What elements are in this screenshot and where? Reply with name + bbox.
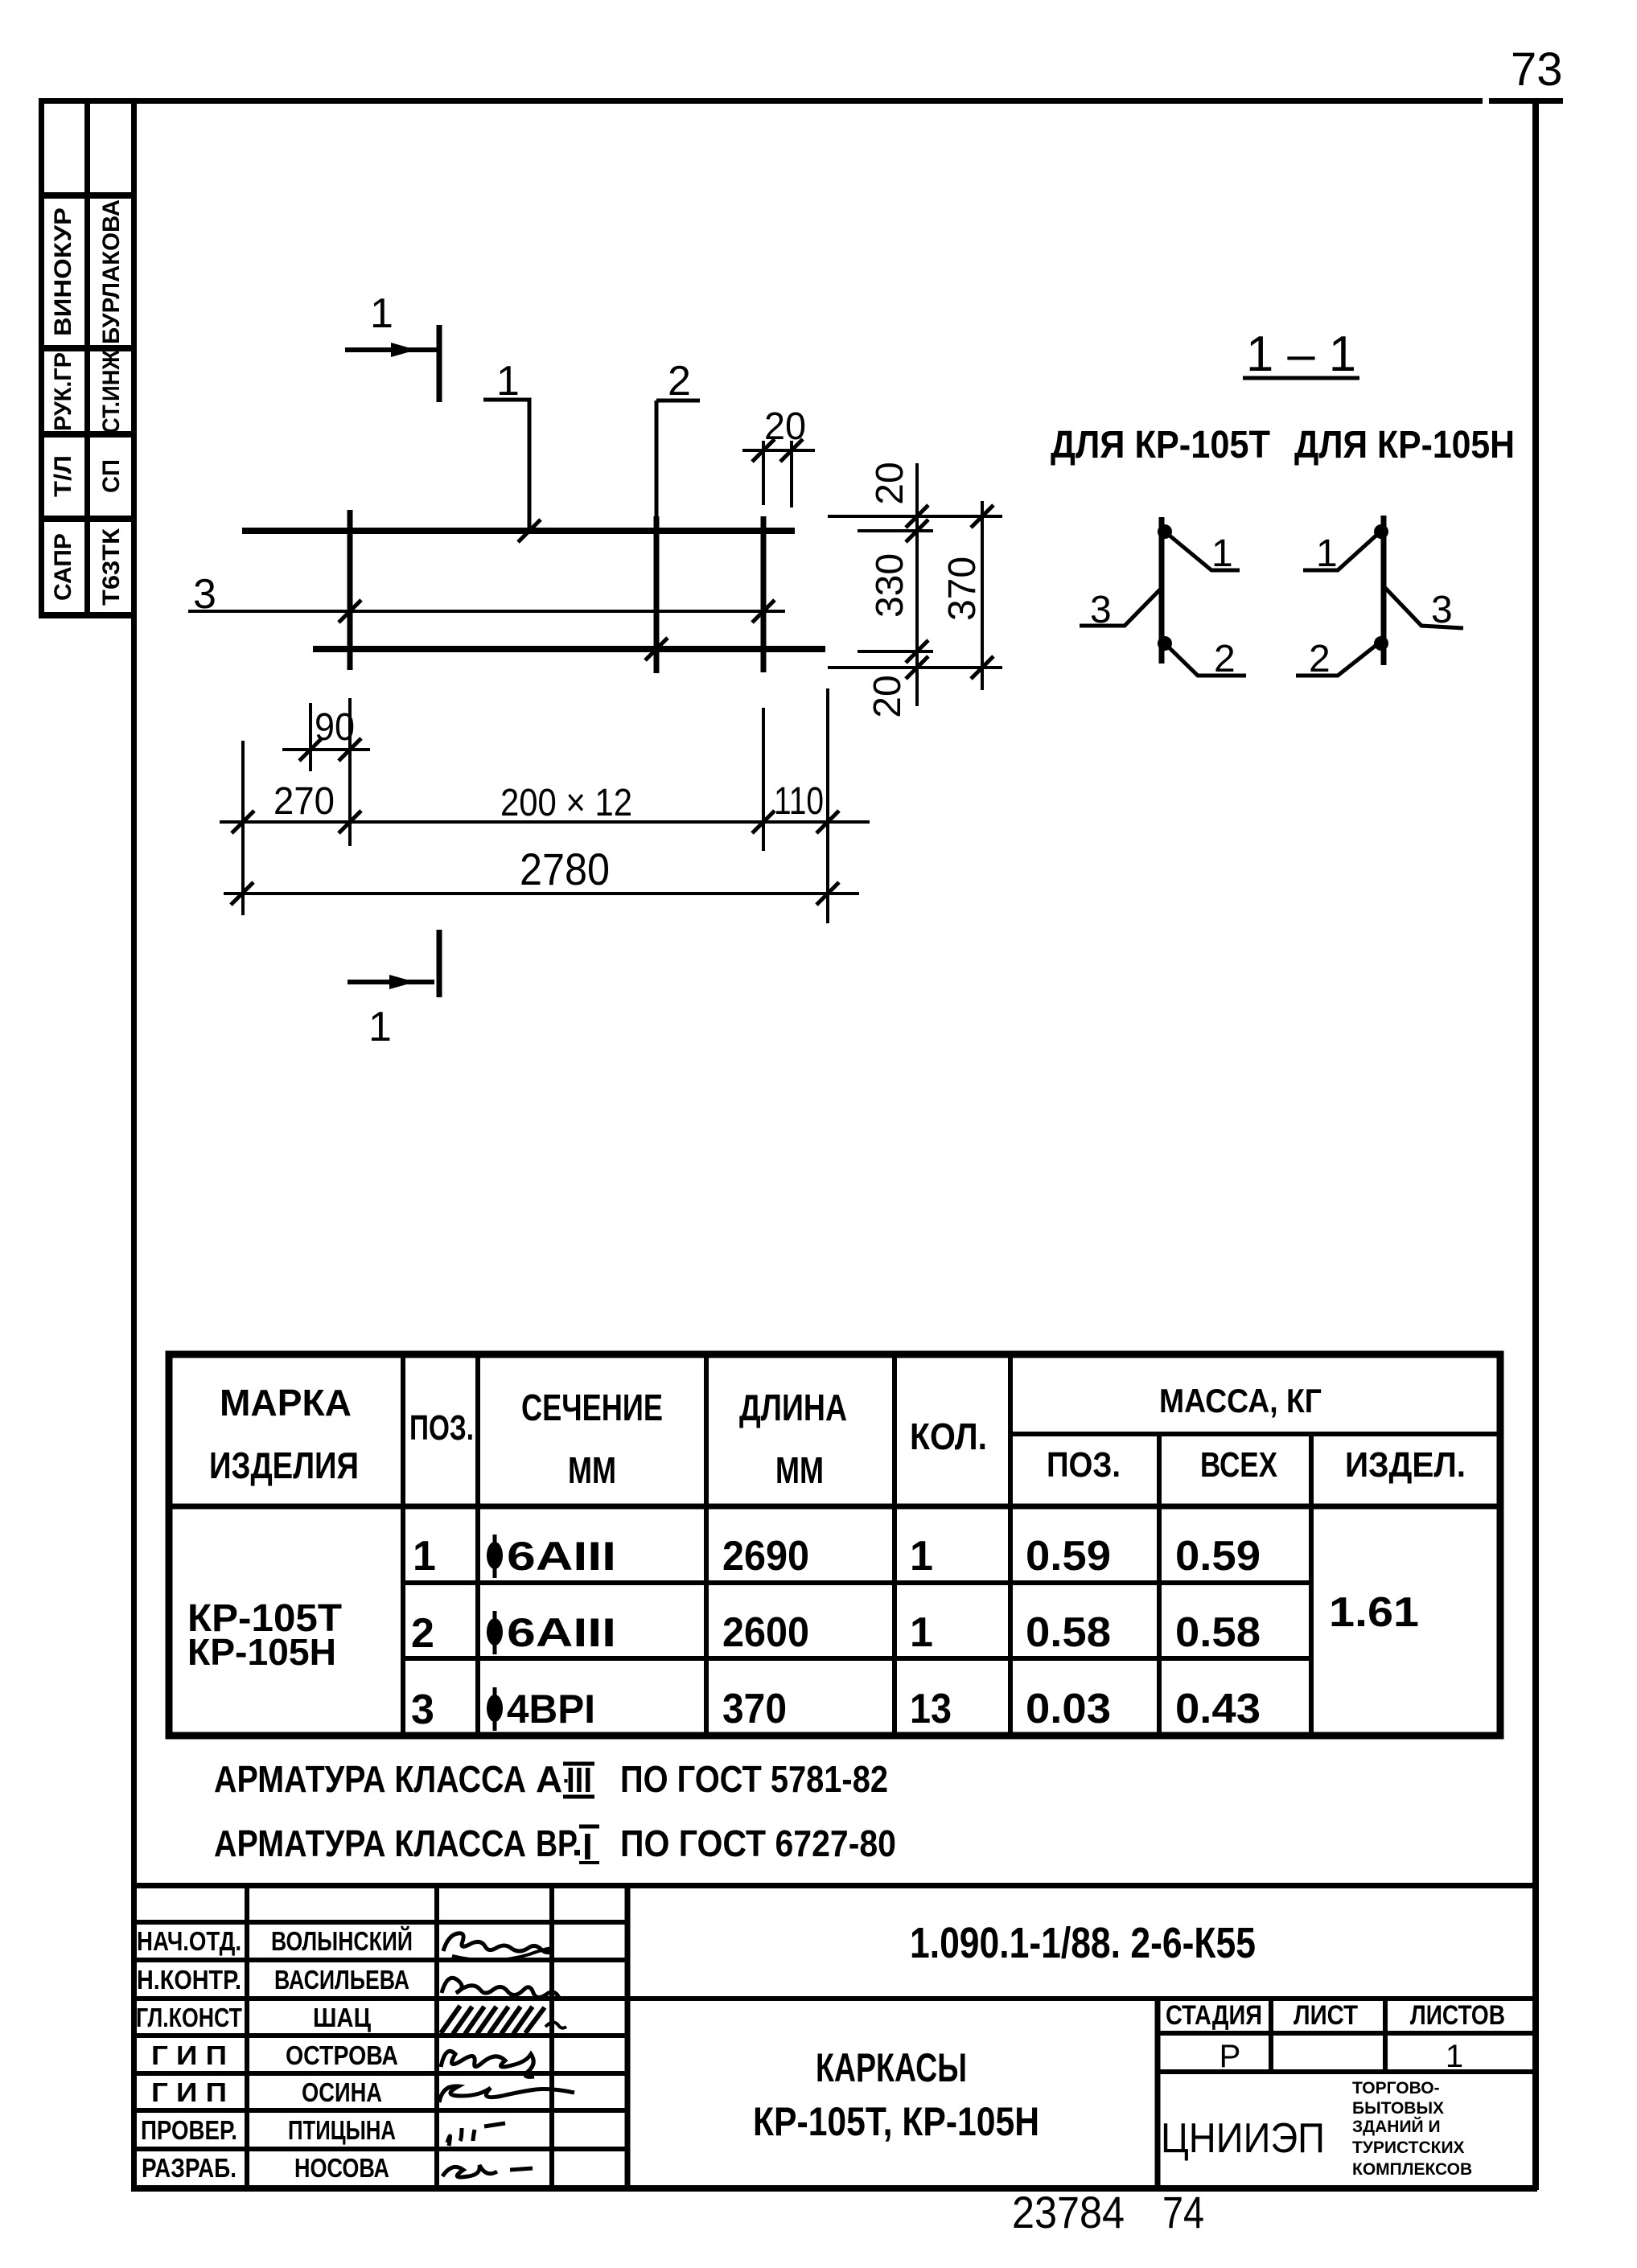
chain1 slash y830 xyxy=(906,656,928,679)
svg-text:1: 1 xyxy=(910,1533,933,1580)
svg-text:0.59: 0.59 xyxy=(1175,1533,1261,1580)
table header bottom line xyxy=(169,1504,1500,1510)
svg-text:РУК.ГР: РУК.ГР xyxy=(50,352,76,431)
frame top border segment 2 xyxy=(1489,98,1563,104)
left dim extension xyxy=(241,741,245,915)
svg-text:2: 2 xyxy=(1309,638,1331,680)
chain1 slash y810 xyxy=(906,640,928,663)
svg-text:ЛИСТОВ: ЛИСТОВ xyxy=(1410,2000,1505,2031)
right symbol leader 3 xyxy=(1385,588,1463,628)
svg-text:ПО ГОСТ 6727-80: ПО ГОСТ 6727-80 xyxy=(620,1822,896,1864)
svg-text:2: 2 xyxy=(411,1610,434,1657)
dim 90: ext line xyxy=(309,703,312,771)
svg-text:ПРОВЕР.: ПРОВЕР. xyxy=(141,2115,237,2145)
signature 4 xyxy=(441,2051,534,2077)
svg-text:ПОЗ.: ПОЗ. xyxy=(409,1408,474,1448)
svg-text:ПТИЦЫНА: ПТИЦЫНА xyxy=(288,2115,396,2145)
frame top border segment 1 xyxy=(39,98,1483,104)
left symbol: dot 1 xyxy=(1158,524,1172,539)
svg-text:3: 3 xyxy=(193,571,216,618)
section title underline xyxy=(1243,376,1359,380)
right symbol: wire bar xyxy=(1381,516,1387,665)
tb row 2624 xyxy=(131,2108,627,2113)
svg-text:ВСЕХ: ВСЕХ xyxy=(1200,1445,1277,1485)
right symbol: dot 1 xyxy=(1374,524,1388,539)
tb v-line 1439 xyxy=(1155,1999,1161,2188)
svg-text:ОСИНА: ОСИНА xyxy=(302,2077,382,2107)
table v-line 1256 xyxy=(1008,1354,1013,1736)
bar pos 1 (top chord) xyxy=(242,528,795,534)
svg-text:РАЗРАБ.: РАЗРАБ. xyxy=(142,2153,237,2183)
dim 90: slash a xyxy=(299,738,322,761)
dimA slash 2 xyxy=(339,811,361,833)
svg-text:1: 1 xyxy=(1211,532,1233,575)
table v-line 1630 xyxy=(1309,1434,1314,1736)
left symbol leader 1 xyxy=(1165,532,1240,570)
dim line B xyxy=(224,892,859,895)
svg-text:КАРКАСЫ: КАРКАСЫ xyxy=(816,2045,967,2090)
bar pos 2 (bottom chord) xyxy=(313,646,825,652)
svg-text:ВИНОКУР: ВИНОКУР xyxy=(50,207,76,336)
svg-text:0.59: 0.59 xyxy=(1026,1533,1111,1580)
stamp row line 2 xyxy=(39,345,137,351)
svg-text:Т/Л: Т/Л xyxy=(50,455,76,497)
table masса sub header line xyxy=(1010,1432,1500,1436)
dim 20 top: slash b xyxy=(780,439,803,462)
title block bottom line xyxy=(131,2185,1537,2192)
svg-text:1: 1 xyxy=(413,1533,436,1580)
table v-line 878 xyxy=(704,1354,709,1736)
right chain ext bottom (wire bottoms) xyxy=(828,666,1002,669)
svg-text:0.03: 0.03 xyxy=(1026,1686,1111,1732)
section mark 1 top: arrow line xyxy=(345,343,438,357)
svg-text:0.58: 0.58 xyxy=(1026,1609,1111,1656)
svg-text:6АIII: 6АIII xyxy=(507,1610,616,1655)
svg-text:ТУРИСТСКИХ: ТУРИСТСКИХ xyxy=(1352,2139,1465,2157)
title block top line xyxy=(131,1883,1537,1888)
svg-text:ПОЗ.: ПОЗ. xyxy=(1047,1445,1121,1485)
tb row 2437 xyxy=(131,1958,627,1962)
svg-text:Г И П: Г И П xyxy=(151,2077,227,2107)
svg-text:1.61: 1.61 xyxy=(1329,1589,1419,1636)
tb row 2531 xyxy=(131,2033,627,2038)
dim 20 top: slash a xyxy=(752,439,775,462)
svg-text:КР-105Т, КР-105Н: КР-105Т, КР-105Н xyxy=(753,2099,1039,2144)
section mark 1 bottom: cut tick xyxy=(437,930,442,997)
svg-text:20: 20 xyxy=(866,675,909,717)
frame left border xyxy=(131,98,137,2190)
svg-text:2: 2 xyxy=(668,358,691,405)
svg-text:КОМПЛЕКСОВ: КОМПЛЕКСОВ xyxy=(1352,2160,1472,2179)
svg-text:ИЗДЕЛИЯ: ИЗДЕЛИЯ xyxy=(209,1444,359,1486)
table outer border xyxy=(169,1354,1500,1736)
table v-line 1112 xyxy=(892,1354,897,1736)
cross wire B xyxy=(654,516,660,673)
row2 диаметр symbol xyxy=(487,1611,503,1654)
table row line 2 xyxy=(403,1656,1311,1661)
dimB slash 1 xyxy=(231,882,253,905)
svg-text:23784: 23784 xyxy=(1012,2187,1125,2237)
svg-text:ЦНИИЭП: ЦНИИЭП xyxy=(1161,2115,1325,2162)
left symbol leader 2 xyxy=(1165,643,1246,676)
table v-line 594 xyxy=(475,1354,480,1736)
svg-text:СТ.ИНЖ: СТ.ИНЖ xyxy=(98,349,125,433)
svg-text:Т63ТК: Т63ТК xyxy=(98,528,125,606)
svg-text:СЕЧЕНИЕ: СЕЧЕНИЕ xyxy=(521,1387,663,1428)
note line 2 I overline xyxy=(579,1825,599,1829)
dimA slash 3 xyxy=(752,811,775,833)
right chain ext bottom chord xyxy=(858,650,933,653)
table row line 1 xyxy=(403,1580,1311,1585)
stamp column divider xyxy=(84,101,90,616)
section mark 1 top: cut tick xyxy=(437,325,442,402)
wireC dim extension xyxy=(762,708,765,851)
signature 6 xyxy=(447,2123,505,2146)
left symbol: wire bar xyxy=(1159,517,1165,664)
svg-text:3: 3 xyxy=(411,1687,434,1733)
dimA slash 1 xyxy=(232,811,254,833)
slash tick at leader1/top chord xyxy=(518,520,541,542)
row3 диаметр symbol xyxy=(487,1687,503,1731)
tb v-line 307 xyxy=(245,1885,249,2188)
table v-line 1441 xyxy=(1157,1434,1162,1736)
svg-text:АРМАТУРА КЛАССА: АРМАТУРА КЛАССА xyxy=(214,1822,526,1864)
signature 7 xyxy=(442,2165,533,2177)
svg-text:КОЛ.: КОЛ. xyxy=(910,1415,987,1457)
signature 3 (hatch) xyxy=(441,2006,566,2034)
signature 2 xyxy=(442,1978,559,1998)
right dim extension xyxy=(826,688,829,923)
svg-text:1: 1 xyxy=(368,1004,392,1050)
svg-text:ЛИСТ: ЛИСТ xyxy=(1294,2000,1358,2031)
svg-text:НОСОВА: НОСОВА xyxy=(294,2153,389,2183)
svg-text:Г И П: Г И П xyxy=(151,2040,227,2070)
svg-text:1: 1 xyxy=(370,290,393,337)
svg-text:ДЛИНА: ДЛИНА xyxy=(739,1387,847,1428)
tb v-line 780 xyxy=(625,1885,631,2188)
stamp row line 3 xyxy=(39,431,137,438)
chain2 slash y642 xyxy=(971,505,993,528)
dimB slash 2 xyxy=(816,882,839,905)
svg-text:ЗДАНИЙ И: ЗДАНИЙ И xyxy=(1352,2117,1441,2136)
tb row 2578 xyxy=(131,2071,627,2076)
svg-text:73: 73 xyxy=(1511,43,1563,96)
dim 20 top: dim line xyxy=(742,449,815,452)
tb row 2485 full xyxy=(131,1996,1535,2001)
стадия v-line 1722 xyxy=(1383,1999,1388,2072)
svg-text:СТАДИЯ: СТАДИЯ xyxy=(1166,2000,1262,2031)
svg-text:III: III xyxy=(566,1761,592,1800)
signature 5 xyxy=(439,2086,574,2102)
svg-text:СП: СП xyxy=(98,459,125,493)
right symbol: dot 2 xyxy=(1374,636,1388,651)
stamp outer left edge xyxy=(39,101,44,618)
right symbol leader 2 xyxy=(1296,642,1380,676)
cross wire C xyxy=(761,516,767,672)
slash tick wireC/mid line xyxy=(752,600,775,622)
svg-text:ДЛЯ КР-105Т: ДЛЯ КР-105Т xyxy=(1051,424,1270,466)
signature 1 xyxy=(443,1933,553,1953)
slash tick wireA/mid line xyxy=(339,600,361,622)
svg-text:1 – 1: 1 – 1 xyxy=(1246,327,1356,382)
wireA dim extension xyxy=(348,698,352,846)
svg-text:13: 13 xyxy=(910,1686,952,1732)
svg-text:ММ: ММ xyxy=(568,1449,616,1491)
svg-text:ВОЛЫНСКИЙ: ВОЛЫНСКИЙ xyxy=(271,1925,413,1956)
svg-text:200 × 12: 200 × 12 xyxy=(500,782,632,824)
wire pos 3 leader line xyxy=(188,610,785,613)
svg-text:330: 330 xyxy=(869,553,911,618)
svg-text:6АIII: 6АIII xyxy=(507,1534,616,1579)
svg-text:2: 2 xyxy=(1214,638,1236,680)
chain1 slash y642 xyxy=(906,505,928,528)
svg-text:ММ: ММ xyxy=(775,1449,824,1491)
right chain ext top (wire tops) xyxy=(828,515,1002,518)
chain2 slash y830 xyxy=(971,656,993,679)
slash tick wireB/bottom chord xyxy=(645,638,668,660)
svg-text:2600: 2600 xyxy=(722,1609,809,1656)
frame right border xyxy=(1532,98,1539,2190)
svg-text:2690: 2690 xyxy=(722,1533,809,1580)
table v-line 501 xyxy=(401,1354,405,1736)
svg-text:ГЛ.КОНСТ: ГЛ.КОНСТ xyxy=(136,2003,242,2032)
svg-text:0.43: 0.43 xyxy=(1175,1686,1261,1732)
stamp row line 1 xyxy=(39,192,137,199)
note line 1 III underline xyxy=(563,1795,594,1799)
svg-text:Р: Р xyxy=(1220,2039,1241,2074)
svg-text:ВР: ВР xyxy=(536,1822,578,1864)
svg-text:МАССА, КГ: МАССА, КГ xyxy=(1159,1382,1322,1420)
left symbol: dot 2 xyxy=(1158,636,1172,651)
svg-text:1: 1 xyxy=(496,358,520,405)
svg-text:ДЛЯ КР-105Н: ДЛЯ КР-105Н xyxy=(1294,424,1515,466)
svg-text:АРМАТУРА КЛАССА: АРМАТУРА КЛАССА xyxy=(214,1758,526,1800)
svg-text:74: 74 xyxy=(1162,2187,1204,2237)
svg-text:ПО ГОСТ 5781-82: ПО ГОСТ 5781-82 xyxy=(620,1758,888,1800)
svg-text:НАЧ.ОТД.: НАЧ.ОТД. xyxy=(137,1926,241,1956)
svg-text:ОСТРОВА: ОСТРОВА xyxy=(286,2040,398,2070)
leader of label 2 xyxy=(656,401,700,516)
svg-text:1: 1 xyxy=(910,1609,933,1656)
dim 90: slash b xyxy=(339,738,361,761)
svg-text:САПР: САПР xyxy=(50,533,76,601)
svg-text:4ВРI: 4ВРI xyxy=(507,1687,595,1732)
section mark 1 bottom: arrow line xyxy=(348,975,434,989)
svg-text:1.090.1-1/88. 2-6-К55: 1.090.1-1/88. 2-6-К55 xyxy=(910,1919,1256,1967)
chain1 slash y660 xyxy=(906,520,928,542)
стадия v-line 1580 xyxy=(1269,1999,1273,2072)
tb v-line 543 xyxy=(434,1885,439,2188)
svg-text:1: 1 xyxy=(1316,532,1338,575)
cross wire A xyxy=(348,510,353,670)
svg-text:370: 370 xyxy=(722,1686,787,1732)
svg-text:БУРЛАКОВА: БУРЛАКОВА xyxy=(98,199,125,344)
right symbol leader 1 xyxy=(1303,532,1380,570)
svg-text:2780: 2780 xyxy=(520,844,610,894)
stamp bottom edge xyxy=(39,612,137,618)
svg-text:МАРКА: МАРКА xyxy=(220,1382,352,1424)
svg-text:ТОРГОВО-: ТОРГОВО- xyxy=(1352,2079,1440,2097)
стадия header bottom xyxy=(1158,2031,1535,2036)
dim 20 top: ext line b xyxy=(790,441,793,507)
svg-text:ШАЦ: ШАЦ xyxy=(313,2003,371,2032)
стадия values bottom xyxy=(1158,2069,1535,2074)
tb v-line 686 xyxy=(549,1885,554,2188)
dimA slash 4 xyxy=(816,811,839,833)
svg-text:20: 20 xyxy=(869,462,911,504)
dim line A xyxy=(220,820,870,824)
svg-text:ИЗДЕЛ.: ИЗДЕЛ. xyxy=(1345,1445,1466,1485)
svg-text:270: 270 xyxy=(274,780,335,823)
right chain ext top chord xyxy=(858,529,933,532)
right chain dim line 1 xyxy=(915,463,919,706)
svg-text:БЫТОВЫХ: БЫТОВЫХ xyxy=(1352,2099,1444,2118)
svg-text:Н.КОНТР.: Н.КОНТР. xyxy=(137,1965,241,1995)
stamp row line 4 xyxy=(39,516,137,522)
leader of label 1 xyxy=(483,400,529,531)
row1 диаметр symbol xyxy=(487,1535,503,1578)
dim 20 top: ext line a xyxy=(762,441,765,505)
svg-text:ВАСИЛЬЕВА: ВАСИЛЬЕВА xyxy=(274,1965,409,1995)
svg-text:370: 370 xyxy=(941,557,984,621)
tb row 2390 xyxy=(131,1920,627,1925)
svg-text:3: 3 xyxy=(1431,589,1453,631)
note line 2 I underline xyxy=(579,1861,599,1864)
dim 90: dim line xyxy=(282,748,370,751)
right chain dim line 2 xyxy=(981,501,984,690)
note line 1 III overline xyxy=(563,1762,594,1766)
svg-text:0.58: 0.58 xyxy=(1175,1609,1261,1656)
svg-text:3: 3 xyxy=(1090,589,1112,631)
svg-text:1: 1 xyxy=(1446,2039,1463,2074)
svg-text:КР-105Н: КР-105Н xyxy=(187,1631,336,1673)
left symbol leader 3 xyxy=(1080,588,1162,626)
svg-text:110: 110 xyxy=(774,780,824,823)
tb row 2672 xyxy=(131,2147,627,2151)
